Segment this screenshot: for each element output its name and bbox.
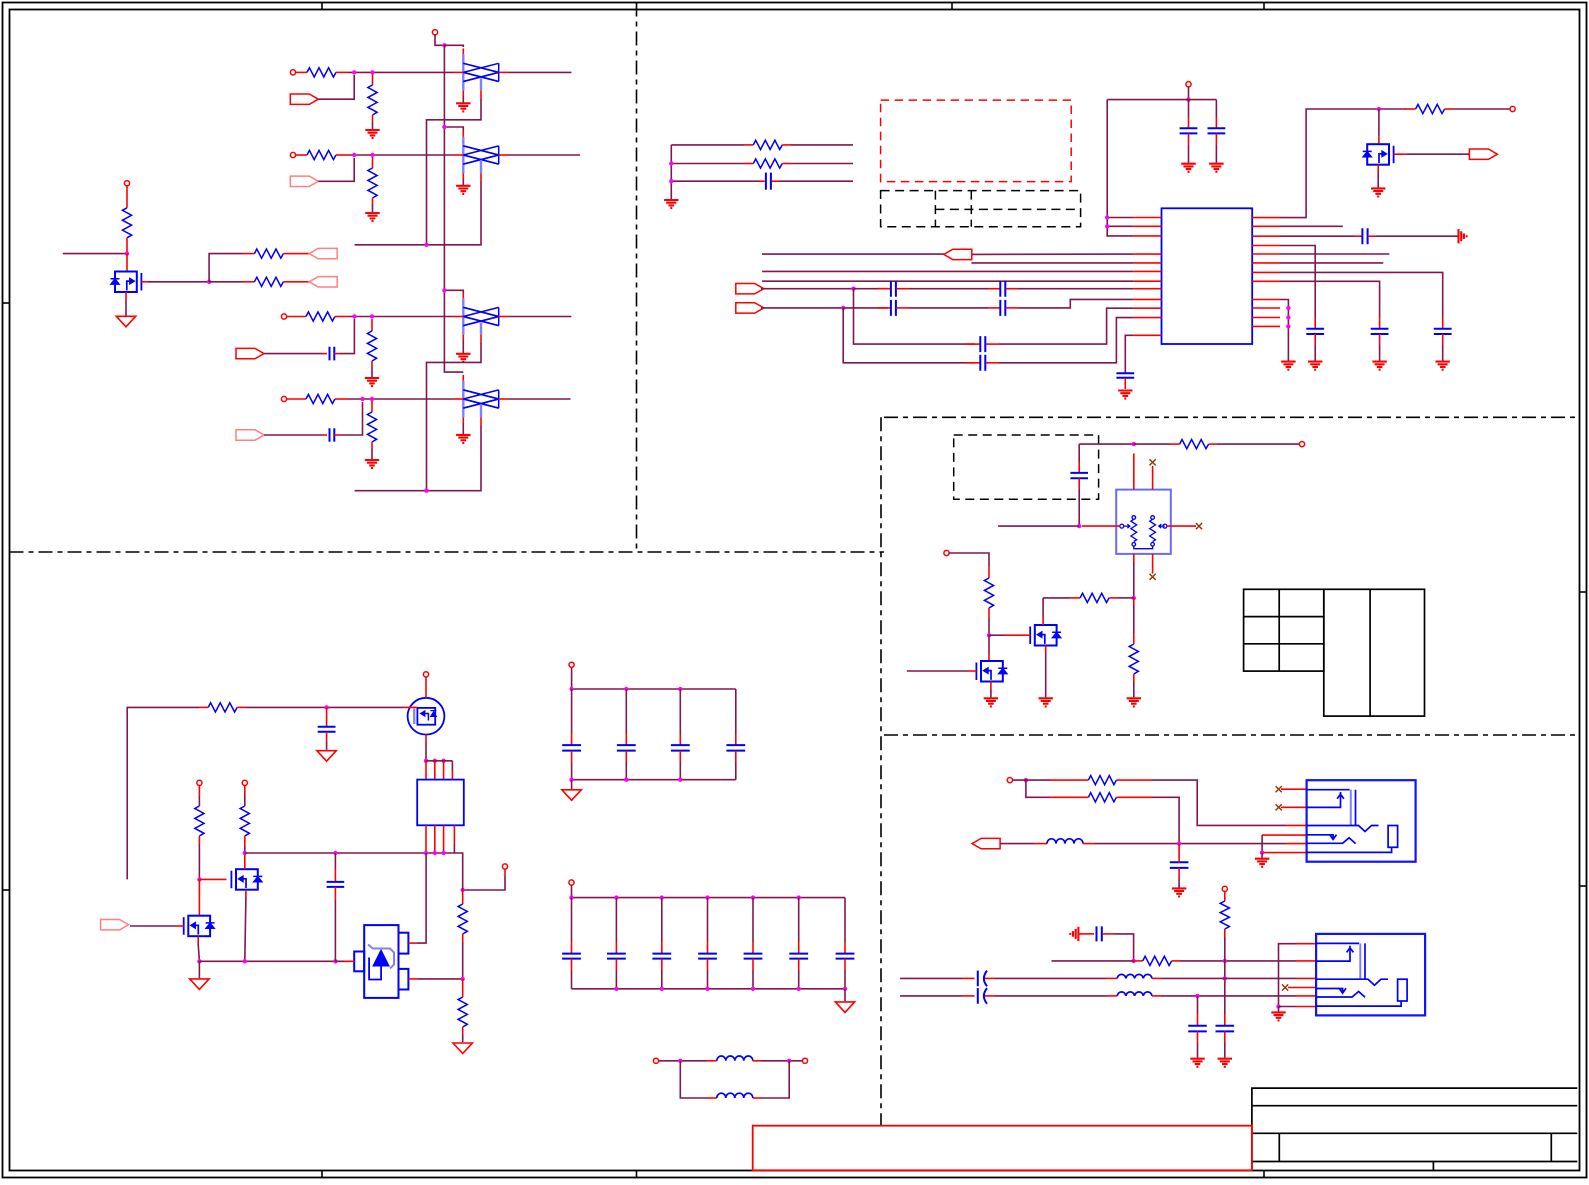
capacitor C22 bank1 [679, 689, 681, 734]
wire VBUS to D2 top [444, 127, 463, 131]
node junction Q2 gate [987, 633, 991, 637]
transistor Q2 [1035, 625, 1057, 646]
wire bank1 gnd stem [571, 780, 573, 789]
port PORT4 [236, 430, 264, 440]
section divider horizontal y=552 [10, 551, 885, 553]
wire port4 to cap C2 [264, 434, 322, 436]
pin P4 [281, 396, 286, 401]
wire rowA2 drop [1026, 780, 1050, 797]
wire U1 rpin6 stub [1280, 262, 1383, 264]
port PORT2 [290, 176, 318, 186]
U1 left pin 5 [1134, 262, 1162, 264]
capacitor C2 [322, 434, 327, 436]
wire L pair left [659, 1060, 707, 1062]
node junction Q6 out a [424, 759, 428, 763]
wire U1 pin2 link [1107, 225, 1134, 227]
ground D4 [456, 435, 470, 443]
wire R26 to J2 pin2 [1180, 960, 1296, 962]
node junction rowA3 [1177, 841, 1181, 845]
capacitor C15 [1442, 317, 1444, 329]
wire U1 pin6 long [762, 270, 1134, 272]
ground triangle bank2 [835, 1002, 854, 1013]
U1 right pin 8 [1252, 280, 1280, 282]
zone tick bottom 3 [1263, 1171, 1265, 1178]
wire port12 to L3 [1000, 843, 1034, 845]
pin P3 [281, 314, 286, 319]
wire U1 pin12 to C12 [1125, 335, 1133, 372]
capacitor C30 bank2 [571, 898, 573, 942]
wire stub line C out [780, 180, 853, 182]
resistor R26 [1134, 960, 1143, 962]
D4 pin top lead [462, 375, 464, 381]
ground D3 [456, 354, 470, 362]
wire net X to U1 pin10 [999, 308, 1134, 344]
ground Q1 triangle [116, 316, 135, 327]
node junction U1 pin2 [1105, 224, 1109, 228]
no-connect X J1 pin1 [1276, 786, 1282, 792]
wire D1 ground stem [462, 96, 464, 102]
wire Q1b source to ground [990, 682, 992, 690]
capacitor C23 bank1 [735, 689, 737, 734]
zone tick top 3 [1263, 3, 1265, 10]
resistor R19 [199, 706, 208, 708]
capacitor C36 bank2 [844, 898, 846, 942]
node junction Q6 out b [433, 759, 437, 763]
wire U1 rpin4 to C13 [1280, 246, 1315, 318]
resistor R11 [243, 281, 254, 283]
pin P20 [1222, 886, 1227, 891]
pin P15 [569, 662, 574, 667]
wire R9 to Q1 drain [126, 254, 128, 272]
pin VBUS P5 [432, 30, 437, 35]
node junction b2t2 [660, 895, 664, 899]
TVS diode array D1 [462, 54, 464, 90]
capacitor C34 bank2 [752, 898, 754, 942]
node junction gnd pin11 [1286, 315, 1290, 319]
node junction row2 a [352, 153, 356, 157]
resistor R15 [1170, 443, 1180, 445]
node junction b2t1 [614, 895, 618, 899]
wire Q5 gate to port [1394, 153, 1407, 155]
resistor R22 [462, 890, 464, 904]
wire VBUS to IC pins [1107, 100, 1134, 236]
connector J1 [1307, 780, 1416, 862]
D2 pin bottom-right lead [480, 173, 482, 182]
wire Q1 source to ground [125, 292, 127, 300]
node junction gnd pin10 [1286, 306, 1290, 310]
node junction b2b4 [797, 987, 801, 991]
wire R14 to pin [1453, 108, 1510, 110]
node junction VBUS2 [1186, 97, 1190, 101]
zone tick left 2 [3, 889, 10, 891]
inductor L4 [1107, 977, 1117, 979]
inductor L2 [707, 1097, 717, 1099]
resistor R8 [371, 401, 373, 412]
pin P1 [290, 70, 295, 75]
wire L4 to J2 pin3 [1161, 977, 1296, 979]
ground C13 [1308, 362, 1322, 370]
wire U3 cathode to bus [408, 942, 417, 944]
U1 left pin 2 [1134, 225, 1162, 227]
wire gate bus down to Q1b drain [988, 635, 990, 653]
shunt regulator U3 TL431 [364, 925, 398, 998]
TVS diode array D3 [462, 298, 464, 334]
wire J2 gnd stem [1278, 1007, 1280, 1012]
zone tick top 2 [951, 3, 953, 10]
wire fb junction to Q3 gate [199, 878, 226, 880]
wire row4 [348, 398, 453, 400]
port PORT9 [736, 303, 764, 313]
ground triangle bank1 [562, 790, 581, 801]
node junction R22/R23 [461, 977, 465, 981]
capacitor C1 [322, 353, 327, 355]
wire U1 rpin8 to C14 [1280, 281, 1380, 317]
title block divider 1 [1278, 1133, 1280, 1161]
zone tick right 1 [1580, 591, 1587, 593]
D4 pin bottom-right lead [480, 417, 482, 426]
U1 right pin 7 [1252, 271, 1280, 273]
node junction shield B [424, 489, 428, 493]
U1 right pin 3 [1252, 235, 1280, 237]
wire L5 to J2 pin5 [1161, 995, 1296, 997]
wire D4 ground stem [462, 423, 464, 434]
node junction b1t3 [678, 687, 682, 691]
node junction row4 b [370, 397, 374, 401]
ground U1 gnd bus [1281, 362, 1295, 370]
ground triangle R23 [453, 1043, 472, 1054]
D2 pin top lead [462, 131, 464, 137]
node junction b2t5 [797, 895, 801, 899]
wire bank2 pin stem [571, 885, 573, 898]
wire Q6 source down [425, 735, 427, 742]
resistor R3 [287, 316, 306, 318]
port PORT10 [1469, 149, 1497, 159]
ground C20 [1172, 888, 1186, 896]
wire bank1 top bus [572, 688, 736, 690]
node junction VBUS [442, 43, 446, 47]
node junction b1b2 [624, 778, 628, 782]
U1 right pin 5 [1252, 253, 1280, 255]
capacitor C23 [1197, 996, 1199, 1014]
transistor Q4 [188, 916, 210, 937]
U1 left pin 9 [1134, 298, 1162, 300]
wire R19 to Q6 [246, 706, 404, 708]
pin P18 [802, 1058, 807, 1063]
wire row2 out [509, 154, 581, 156]
node junction b1t2 [624, 687, 628, 691]
node junction mid bus U2a [424, 851, 428, 855]
wire bank2 top bus [572, 897, 846, 899]
wire P14 down [504, 869, 506, 876]
ground C12 [1118, 391, 1132, 399]
no-connect X T1 right [1196, 523, 1202, 529]
node junction rowB3 [1223, 976, 1227, 980]
wire rowA [1013, 779, 1051, 781]
dashed black box divider 3 [935, 208, 1080, 210]
wire net shield A stub [355, 244, 427, 246]
pin P9 [1299, 442, 1304, 447]
zone tick bottom 2 [636, 1171, 638, 1178]
wire rowD long [900, 995, 962, 997]
wire stub line A [671, 144, 744, 146]
ground triangle main [190, 979, 209, 990]
wire left stub [63, 253, 127, 255]
capacitor C5 [1215, 100, 1217, 117]
wire stub line A out [791, 144, 853, 146]
pin P10 [944, 550, 949, 555]
node junction rowB1 [1131, 959, 1135, 963]
node junction gate fb [197, 877, 201, 881]
node junction mid bus U2c [441, 851, 445, 855]
pin P8 [1510, 106, 1515, 111]
wire row3 out [509, 316, 572, 318]
wire C2 to row4 [340, 402, 363, 435]
capacitor C19 [334, 853, 336, 869]
resistor R13 [744, 163, 753, 165]
wire R24 to J1 pin3 [1152, 780, 1286, 825]
U1 left pin 10 [1134, 307, 1162, 309]
wire Q1b gate stub [968, 670, 976, 672]
D1 pin right lead [499, 71, 509, 73]
node junction b2b5 [843, 987, 847, 991]
U1 right pin 11 [1252, 317, 1280, 319]
wire U1 rpin7 to C15 [1280, 272, 1443, 317]
U1 right pin 10 [1252, 307, 1280, 309]
resistor R21 [244, 786, 246, 797]
D1 pin bottom-right lead [480, 91, 482, 100]
pin P12 pullup A [197, 780, 202, 785]
wire gnd bus stem [198, 961, 200, 978]
U1 left pin 12 [1134, 334, 1162, 336]
wire rowB stub [1052, 960, 1134, 962]
resistor R23 [462, 979, 464, 997]
title block divider 2 [1550, 1133, 1552, 1161]
capacitor C4 [1188, 100, 1190, 117]
wire C9 to U1 pin9 jog [1018, 299, 1134, 308]
wire Q4 source down [197, 937, 199, 945]
node junction b2t4 [751, 895, 755, 899]
wire VIN to Q6 [425, 677, 427, 698]
U1 right pin 6 [1252, 262, 1280, 264]
resistor R17 [1043, 597, 1070, 599]
capacitor CP2 [962, 995, 975, 997]
node junction VCONN [1132, 442, 1136, 446]
wire Q6 gate stub [404, 706, 417, 708]
resistor R14 [1405, 108, 1416, 110]
wire port9 to U1 pin9 [761, 307, 843, 309]
wire net shield B stub [355, 490, 427, 492]
revision red box [753, 1126, 1252, 1171]
resistor R5 [372, 75, 374, 86]
wire U1 rpin1 up to VCC [1280, 109, 1406, 218]
port PORT12 audio L [972, 838, 1000, 848]
resistor R10 [243, 253, 254, 255]
resistor R18 [1133, 598, 1135, 606]
wire bank1 pin stem [571, 667, 573, 689]
capacitor C8 [878, 307, 890, 309]
resistor R20 [198, 786, 200, 797]
zone tick bottom 1 [321, 1171, 323, 1178]
ground D1 [456, 103, 470, 111]
ground row1 pulldown [365, 130, 379, 138]
node junction gate split [207, 280, 211, 284]
wire U1 pin4 long [762, 253, 944, 255]
ground C5 [1209, 164, 1223, 172]
T1 pin bottom-right lead [1152, 554, 1154, 574]
dashed black box divider 2 [970, 191, 972, 227]
pin P17 [653, 1058, 658, 1063]
T1 pin top-left lead [1133, 454, 1135, 490]
wire row1 [348, 71, 453, 73]
title block divider 3 [1432, 1162, 1434, 1171]
dashed black box divider 1 [934, 191, 936, 227]
wire J2 pin1 feed [1279, 944, 1297, 1007]
TVS diode array D4 [462, 381, 464, 417]
wire gate to R10 [209, 254, 243, 282]
node junction row3 b [370, 314, 374, 318]
U1 left pin 3 [1134, 235, 1162, 237]
D3 pin bottom-left lead [462, 335, 464, 341]
node junction stub C [669, 179, 673, 183]
wire VBUS to D3 top [444, 290, 463, 293]
transistor Q5 [1378, 136, 1380, 144]
resistor R7 [371, 319, 373, 331]
D3 pin top lead [462, 293, 464, 299]
T1 pin left lead [1082, 525, 1120, 527]
wire L2 branch [680, 1061, 707, 1098]
wire net X feedback [854, 289, 976, 344]
node junction R9/Q1 [125, 251, 129, 255]
node junction gnd bus A [197, 959, 201, 963]
node junction VCC/R14 [1377, 107, 1381, 111]
ground C4 [1181, 164, 1195, 172]
wire U1 gnd pins bus [1280, 300, 1288, 361]
table block [1244, 589, 1324, 671]
wire Q3 source down [245, 890, 247, 897]
node junction T1 left [1077, 524, 1081, 528]
U1 left pin 8 [1134, 288, 1162, 290]
wire bank1 bottom bus [572, 779, 736, 781]
D1 pin left lead [453, 71, 463, 73]
wire T1 bottom to R17/R18 [1133, 562, 1135, 598]
capacitor C16 [1354, 235, 1362, 237]
wire CP1 to L4 [995, 977, 1107, 979]
wire row4 out [509, 398, 571, 400]
wire net Y feedback [843, 308, 975, 363]
inductor L5 [1107, 995, 1117, 997]
capacitor C14 [1379, 317, 1381, 329]
regulator U2 [417, 780, 464, 826]
capacitor C11 [966, 362, 980, 364]
resistor R12 [744, 144, 753, 146]
resistor R6 [372, 157, 374, 168]
connector J2 [1316, 934, 1425, 1016]
D3 pin left lead [453, 316, 463, 318]
ground C23 [1190, 1059, 1204, 1067]
node junction VBUS D3 [442, 288, 446, 292]
resistor R4 [287, 398, 306, 400]
ground row3 pulldown [365, 378, 379, 386]
node junction U1 pin1 [1105, 215, 1109, 219]
node junction mid bus U2b [433, 851, 437, 855]
zone tick top 1 [321, 3, 323, 10]
transistor Q3 [236, 869, 258, 890]
wire J2 pin6 feed [1296, 1006, 1316, 1008]
U1 left pin 7 [1134, 280, 1162, 282]
wire VBUS to D1 top [444, 45, 463, 47]
U1 right pin 12 [1252, 325, 1280, 327]
wire gate to R11 [209, 281, 243, 283]
wire VBUS vertical bus [444, 45, 463, 372]
wire VCONN top [1079, 443, 1134, 445]
wire Q4 drain [198, 879, 200, 898]
node junction b2t3 [705, 895, 709, 899]
D2 pin right lead [499, 154, 509, 156]
capacitor C12 [1124, 372, 1126, 373]
resistor R16 [988, 566, 990, 578]
no-connect X J2 pin4 [1282, 984, 1288, 990]
node junction Lpair L [678, 1059, 682, 1063]
wire C1 to row3 [340, 319, 354, 354]
ground C14 [1372, 362, 1386, 370]
dashed black box 2 [954, 435, 1099, 499]
node junction b1b3 [678, 778, 682, 782]
chassis ground right [1459, 229, 1467, 243]
U1 left pin 4 [1134, 253, 1162, 255]
ground J1 [1255, 859, 1269, 867]
node junction gnd pin12 [1286, 324, 1290, 328]
ground row2 pulldown [365, 213, 379, 221]
wire U1 pin1 link [1107, 217, 1134, 219]
wire U1 rpin2 stub [1280, 225, 1343, 227]
U2 bottom pins [425, 825, 427, 853]
transistor Q6 (circled PFET) [408, 698, 445, 735]
U1 right pin 1 [1252, 217, 1280, 219]
wire Q2 drain up [1042, 617, 1044, 625]
wire net shield A: D2 return [427, 182, 482, 245]
pin P2 [290, 152, 295, 157]
node junction b2b3 [751, 987, 755, 991]
wire L3 to J1 pin5 [1095, 843, 1286, 845]
capacitor C32 bank2 [661, 898, 663, 942]
transistor Q1b [981, 661, 1003, 682]
dashed black box group [881, 191, 1081, 227]
node junction gnd bus B [243, 959, 247, 963]
wire C21 to rowB [1114, 934, 1134, 961]
wire RX cont [843, 307, 888, 309]
wire U3 ref pin [344, 960, 354, 962]
wire Q3 top to mid bus [244, 853, 246, 869]
inductor L3 [1034, 843, 1047, 845]
pin P13 pullup B [242, 780, 247, 785]
wire VCC down to Q5 [1378, 109, 1380, 136]
wire T1 left net [998, 525, 1079, 527]
port PORT8 [736, 284, 764, 294]
ground stub bus [664, 200, 678, 208]
D4 pin left lead [453, 398, 463, 400]
D4 pin right lead [499, 398, 509, 400]
wire mid bus [245, 852, 453, 854]
U1 right pin 4 [1252, 245, 1280, 247]
wire C8-C9 [909, 307, 988, 309]
node junction b1b1 [569, 778, 573, 782]
node junction row4 a [360, 397, 364, 401]
node junction b1t1 [569, 687, 573, 691]
node junction Q6 out c [441, 759, 445, 763]
node junction rowB2 [1223, 959, 1227, 963]
ground C18 triangle [317, 751, 336, 762]
node junction row2 b [370, 153, 374, 157]
